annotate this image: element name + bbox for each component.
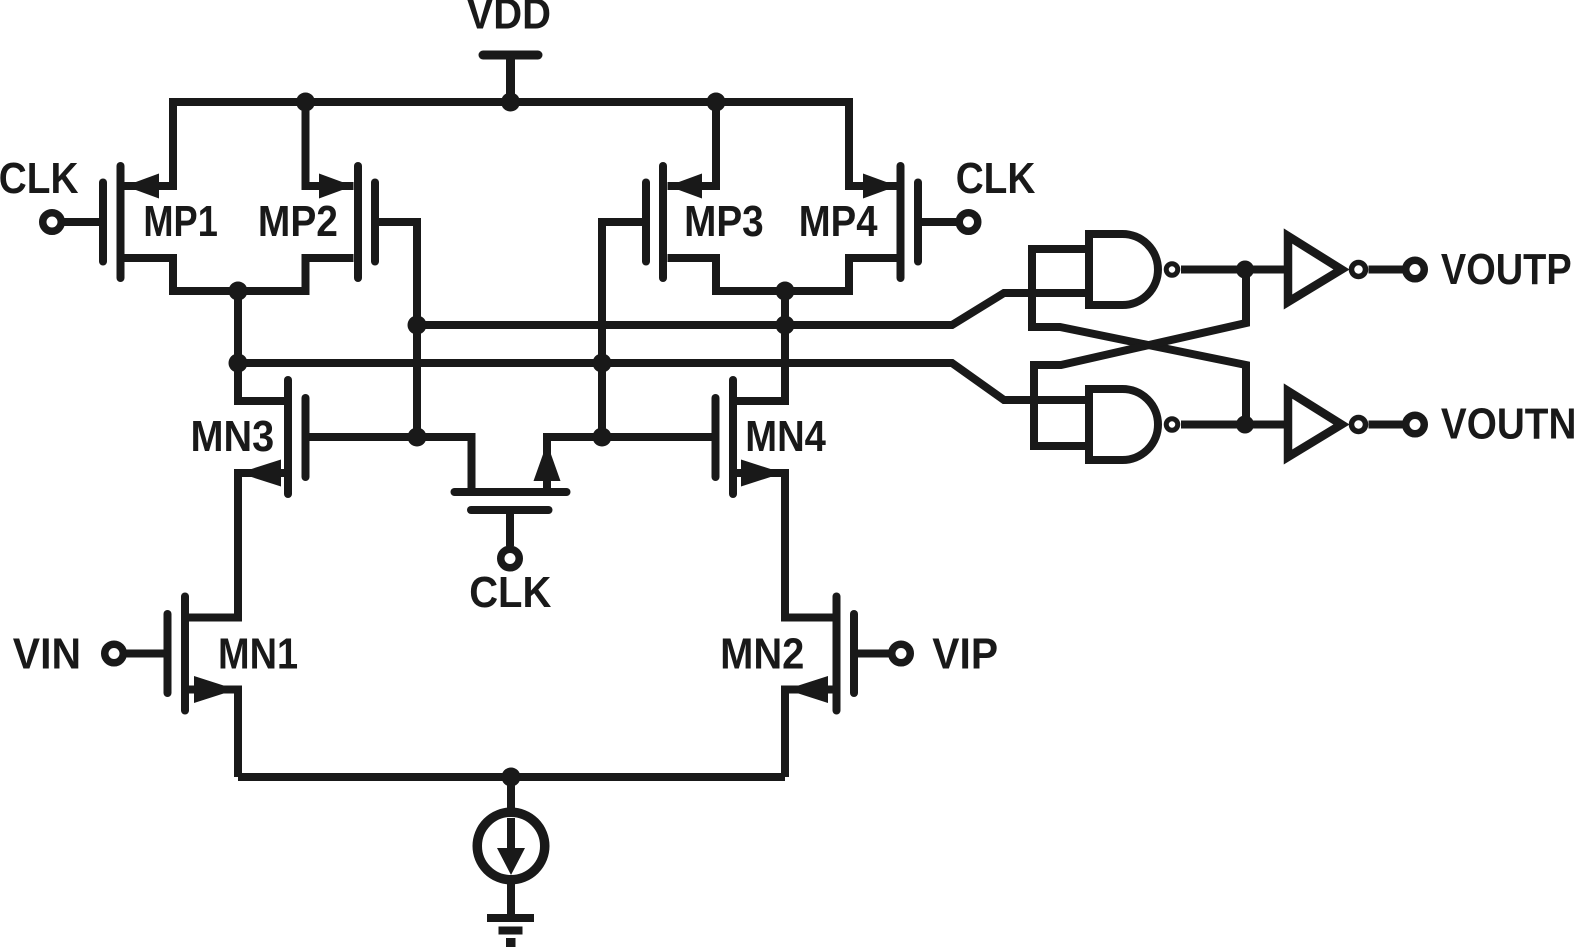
transistor MN4 channel bar — [729, 380, 737, 494]
wire MP2 gate to column node Y branch — [379, 222, 417, 437]
buffer U4 bubble — [1352, 418, 1366, 432]
wire MN3 source down to MN1 drain — [189, 473, 285, 618]
transistor MP1 source arrow — [125, 174, 159, 199]
wire MP3 drain + link to MP4 drain — [668, 258, 897, 291]
wire MN2 gate lead — [858, 650, 889, 658]
transistor MN2 gate bar — [850, 614, 858, 693]
svg-text:MN4: MN4 — [745, 411, 826, 460]
transistor MN3 source arrow — [239, 460, 281, 487]
transistor MN1 source arrow — [194, 676, 236, 703]
terminal VIP — [892, 644, 911, 663]
wire U2 output — [1181, 421, 1284, 429]
buffer U3 bubble — [1352, 263, 1366, 277]
wire node Y horizontal to top NAND input — [417, 293, 1085, 325]
wire current source bottom stem — [507, 883, 515, 915]
ground bar 1 — [487, 914, 534, 922]
current source I1 circle — [477, 812, 545, 880]
transistor MP1 channel bar — [117, 166, 125, 278]
svg-text:CLK: CLK — [469, 567, 551, 616]
transistor MP4 source arrow — [863, 174, 897, 199]
wire U1 output — [1181, 266, 1284, 274]
wire MN3 gate lead — [310, 437, 472, 490]
terminal CLK top-right — [959, 213, 978, 232]
svg-text:MP4: MP4 — [799, 196, 878, 245]
terminal VOUTP — [1406, 260, 1425, 279]
wire MP3 source leg — [668, 102, 717, 186]
terminal VIN — [105, 644, 124, 663]
transistor MSW bridge channel bar — [455, 488, 567, 496]
node VDD junction dot on rail — [501, 93, 520, 112]
transistor MP3 gate bar — [642, 183, 650, 262]
wire MN1 source to tail — [189, 690, 238, 778]
svg-text:CLK: CLK — [956, 152, 1036, 202]
wire current source top stem — [507, 777, 515, 809]
transistor MN2 source arrow — [786, 676, 828, 703]
buffer U4 triangle — [1288, 391, 1342, 457]
node dot Y at MP2 gate column — [408, 316, 427, 335]
node dot U1 output — [1236, 261, 1254, 279]
wire tail rail — [238, 773, 785, 781]
terminal CLK top-left — [43, 213, 62, 232]
svg-text:MP1: MP1 — [143, 196, 217, 245]
svg-text:VOUTP: VOUTP — [1441, 244, 1572, 293]
wire right column to MN4 drain — [737, 291, 786, 401]
svg-text:VIN: VIN — [13, 630, 81, 679]
transistor MP4 channel bar — [897, 166, 905, 278]
transistor MP2 source arrow — [319, 174, 353, 199]
wire node X horizontal to bottom NAND input — [238, 363, 1085, 400]
transistor MP3 source arrow — [668, 174, 702, 199]
ground bar 3 — [506, 938, 516, 947]
node dot U2 output — [1236, 416, 1254, 434]
node dot gate wire right — [593, 428, 612, 447]
wire U4 output — [1369, 421, 1404, 429]
wire U3 output — [1369, 266, 1404, 274]
svg-text:MP2: MP2 — [258, 196, 338, 246]
transistor MP2 gate bar — [371, 183, 379, 262]
transistor MP1 gate bar — [99, 183, 107, 262]
transistor MP2 channel bar — [354, 166, 362, 278]
wire top rail with MP1/MP4 source legs — [125, 102, 897, 186]
wire left column to MN3 drain — [238, 291, 285, 401]
wire MP3 gate to column node X branch — [602, 222, 642, 437]
transistor MN2 channel bar — [833, 597, 841, 711]
nand U1 body — [1089, 234, 1158, 305]
node dot X at MP3 gate column — [593, 354, 612, 373]
node dot MP3/MP4 drain link — [776, 282, 795, 301]
node dot Y at right column — [776, 316, 795, 335]
wire U2 input bracket to U1 output (feedback) — [1034, 270, 1246, 447]
wire MN4 source down to MN2 drain — [737, 473, 833, 618]
transistor MSW bridge gate bar — [471, 506, 549, 514]
buffer U3 triangle — [1288, 236, 1342, 302]
nand U2 body — [1089, 389, 1158, 460]
current source I1 arrow head — [497, 848, 525, 875]
transistor MN3 channel bar — [284, 380, 292, 494]
wire MSW gate stem — [506, 513, 514, 546]
wire MN2 source to tail — [785, 690, 833, 778]
svg-text:VIP: VIP — [932, 629, 998, 678]
terminal VOUTN — [1406, 415, 1425, 434]
node dot X at left column — [229, 354, 248, 373]
wire VDD stem — [506, 55, 515, 98]
nand U2 output bubble — [1166, 419, 1178, 431]
node rail dot MP3 source — [707, 93, 726, 112]
nand U1 output bubble — [1166, 264, 1178, 276]
node dot tail — [502, 768, 521, 787]
transistor MN1 channel bar — [181, 597, 189, 711]
wire MN4 gate lead — [547, 437, 712, 490]
transistor MN4 gate bar — [712, 398, 720, 477]
transistor MN4 source arrow — [741, 460, 783, 487]
transistor MN1 gate bar — [164, 614, 172, 693]
svg-text:MN2: MN2 — [720, 629, 804, 678]
node dot gate wire left — [408, 428, 427, 447]
svg-text:CLK: CLK — [0, 152, 79, 202]
svg-text:VOUTN: VOUTN — [1441, 398, 1575, 448]
svg-text:MN3: MN3 — [191, 411, 275, 460]
wire MP1 gate lead from CLK — [63, 218, 99, 226]
transistor MSW source arrow — [534, 443, 561, 481]
transistor MN3 gate bar — [302, 398, 310, 477]
VDD supply bar — [483, 51, 538, 60]
node rail dot MP2 source — [296, 93, 315, 112]
transistor MP3 channel bar — [659, 166, 667, 278]
node dot MP1/MP2 drain link — [229, 282, 248, 301]
wire MP1 drain + link to MP2 drain — [125, 258, 354, 291]
current source I1 arrow shaft — [507, 818, 515, 851]
wire MP2 source leg — [306, 102, 354, 186]
svg-text:MP3: MP3 — [684, 195, 764, 245]
svg-text:VDD: VDD — [467, 0, 551, 38]
transistor MP4 gate bar — [914, 183, 922, 262]
wire U1 input bracket to U2 output (feedback) — [1032, 249, 1246, 425]
wire MP4 gate lead to CLK — [922, 218, 957, 226]
wire MN1 gate lead — [126, 650, 164, 658]
terminal CLK middle — [501, 549, 520, 568]
ground bar 2 — [499, 927, 523, 935]
svg-text:MN1: MN1 — [218, 629, 298, 678]
